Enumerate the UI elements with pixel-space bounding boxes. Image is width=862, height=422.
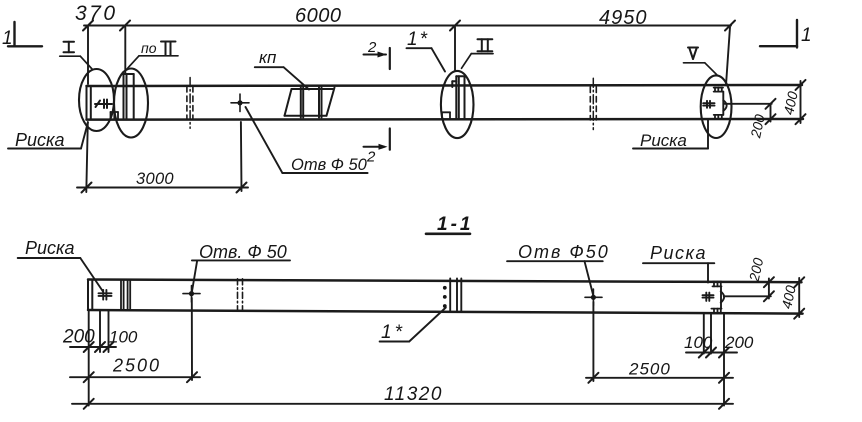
svg-text:400: 400 [778,284,799,310]
label Отв Ф50 (plan right) [507,242,610,296]
hole center mark (top view) [231,94,249,112]
dim 200/100 (plan left) [62,327,138,353]
hole center mark (plan right) [585,289,602,306]
Риска label (top view right) [633,120,708,150]
hole center mark (plan left) [183,286,200,303]
extension line x730 [726,27,730,85]
stiffener plate in circle II [124,74,134,119]
svg-text:Отв Ф50: Отв Ф50 [518,242,610,262]
hole centerline down to 3000 dim [240,122,243,191]
svg-text:1*: 1* [381,322,405,343]
label II (mid joint) [462,39,494,68]
dim 3000 [77,122,248,193]
label Отв Ф 50 (top view) [246,107,368,174]
svg-text:370: 370 [75,2,118,25]
svg-text:1: 1 [801,25,812,46]
label 1* (plan) [380,308,446,344]
svg-text:2500: 2500 [112,356,161,376]
dim 200 vertical (plan right) [746,256,774,301]
right end riska bolt [703,101,714,108]
label I (left detail) [60,42,93,70]
section mark 2 upper [364,39,390,69]
svg-text:3000: 3000 [136,170,174,188]
svg-text:1: 1 [2,28,13,49]
dim 400 vertical (top view) [780,80,805,124]
svg-text:200: 200 [62,327,95,348]
label Отв. Ф 50 (plan left) [192,242,290,293]
svg-text:6000: 6000 [295,5,342,27]
plan right fitting web and bump [721,286,724,308]
right end fitting web and bump [723,92,726,115]
label V [684,48,717,75]
plan double line pair 1 [121,280,124,310]
hole centerline (plan right) [592,302,594,381]
svg-text:1-1: 1-1 [437,214,473,235]
top dimension line [83,21,735,31]
mid height extension line (top right) [724,103,771,105]
girder plan bottom edge [88,310,803,314]
right end detail circle [701,75,732,138]
dim 2500 (plan right) [586,360,733,383]
svg-text:кп: кп [259,48,277,67]
kp console parallelogram [285,88,335,118]
svg-text:200: 200 [746,256,767,283]
girder plan left end cap [88,280,92,311]
svg-text:1*: 1* [407,29,429,50]
right end fitting bottom flange [714,115,723,119]
extension line x88 [87,27,89,84]
mid height extension line (plan right) [724,295,771,297]
plan right riska bolt [703,293,714,301]
girder left end cap [87,86,91,120]
dim 2500 (plan left) [70,356,200,383]
title 1-1 [426,214,473,235]
svg-text:2500: 2500 [628,360,671,379]
splice centerline x593 [592,78,594,129]
plan left extension verticals [88,310,90,406]
dim 100/200 (plan right) [684,333,754,358]
mid joint small square [442,112,450,118]
riska bolt mark (plan left) [99,290,112,300]
splice dashed pair x187/x193 [186,87,188,120]
plan right fitting bottom flange [711,309,721,314]
girder plan top edge [88,280,802,283]
svg-text:Риска: Риска [650,243,707,263]
svg-text:по: по [141,40,157,56]
plan double line pair 2 [128,280,131,310]
plan right fitting top flange [713,282,722,287]
label 1* (top view) [407,29,446,72]
mid joint detail circle [441,71,474,138]
label kп [255,48,309,90]
svg-text:2: 2 [367,39,377,56]
mid joint splice plate [452,76,464,118]
svg-text:Риска: Риска [25,238,75,258]
svg-text:11320: 11320 [384,384,443,405]
splice centerline x190 [189,78,191,129]
right end fitting top flange [714,88,723,92]
dim 200 vertical (top view) [747,99,775,140]
splice dashed pair x590/x596 [589,87,591,120]
svg-text:2: 2 [366,149,376,166]
Риска label (top view left) [8,123,88,151]
svg-text:Риска: Риска [15,130,65,150]
plan mid splice [443,279,461,312]
svg-text:100: 100 [109,328,138,347]
svg-text:200: 200 [747,113,768,140]
detail circle II [114,69,148,138]
svg-text:Отв Ф 50: Отв Ф 50 [291,156,368,174]
plan right extension verticals [703,313,705,353]
dim 400 vertical (plan right) [778,277,804,318]
section mark 1 top-right [760,20,812,48]
svg-text:4950: 4950 [599,7,648,29]
section mark 1 top-left [2,22,42,49]
svg-text:Отв. Ф 50: Отв. Ф 50 [199,242,287,262]
label по II [126,40,178,70]
svg-text:100: 100 [684,333,713,352]
Риска label (plan right) [643,243,714,283]
hole centerline (plan left) [191,298,193,380]
extension line x125 [124,27,126,74]
svg-text:200: 200 [724,333,754,352]
riska bolt mark (top view left) [95,100,112,109]
extension line x455 [454,27,456,70]
svg-text:Риска: Риска [640,131,687,150]
detail circle I [79,69,114,131]
section mark 2 lower [364,129,390,166]
small base detail under circle II [111,112,119,119]
svg-text:400: 400 [780,90,801,116]
Риска label (plan left) [18,238,103,292]
girder top edge [87,85,803,86]
dim 11320 [72,384,733,409]
plan dash-dot pair x237/x242 [237,279,239,311]
girder bottom edge [87,118,804,121]
